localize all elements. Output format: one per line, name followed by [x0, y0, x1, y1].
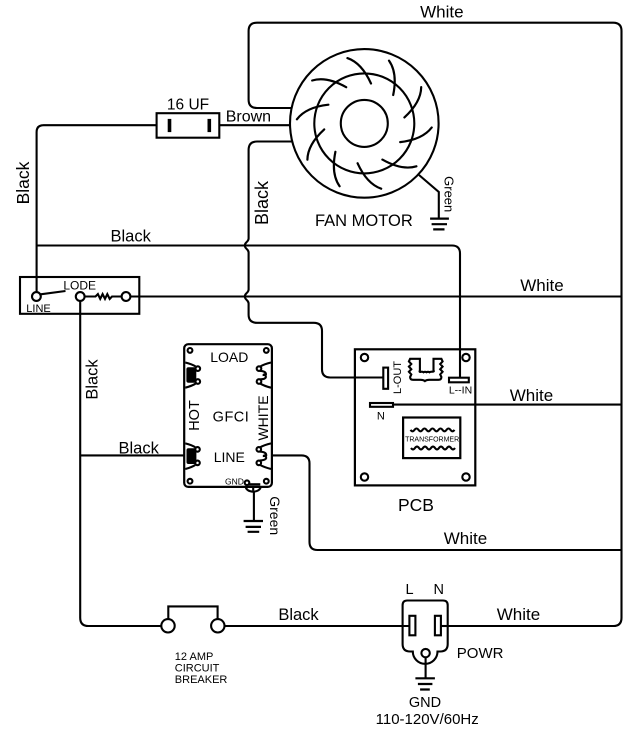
svg-text:N: N — [434, 582, 444, 598]
svg-text:N: N — [377, 411, 385, 423]
svg-text:Black: Black — [119, 439, 160, 457]
svg-text:White: White — [497, 605, 540, 624]
svg-text:LOAD: LOAD — [210, 349, 248, 365]
svg-text:White: White — [420, 3, 463, 22]
svg-text:Green: Green — [442, 176, 457, 212]
svg-text:12 AMP: 12 AMP — [175, 651, 214, 663]
svg-text:GND: GND — [409, 695, 441, 711]
svg-text:GND: GND — [225, 477, 244, 487]
svg-text:FAN MOTOR: FAN MOTOR — [315, 212, 413, 230]
svg-text:CIRCUIT: CIRCUIT — [175, 662, 220, 674]
svg-text:WHITE: WHITE — [255, 395, 271, 440]
svg-text:White: White — [444, 529, 487, 548]
svg-text:L--IN: L--IN — [449, 385, 472, 397]
svg-text:GFCI: GFCI — [213, 409, 250, 425]
svg-text:HOT: HOT — [187, 400, 203, 431]
svg-text:16 UF: 16 UF — [167, 96, 209, 113]
svg-text:L: L — [405, 582, 413, 598]
svg-text:Black: Black — [111, 228, 152, 246]
svg-text:White: White — [520, 276, 563, 295]
svg-text:Black: Black — [13, 161, 33, 204]
svg-text:White: White — [510, 386, 553, 405]
svg-text:PCB: PCB — [398, 495, 434, 515]
svg-text:Black: Black — [84, 359, 102, 400]
svg-text:BREAKER: BREAKER — [175, 674, 228, 686]
svg-text:POWR: POWR — [457, 645, 504, 662]
svg-text:Brown: Brown — [226, 109, 271, 126]
svg-text:LODE: LODE — [63, 278, 96, 292]
svg-text:Black: Black — [278, 606, 319, 624]
svg-text:L-OUT: L-OUT — [392, 361, 404, 394]
svg-text:Green: Green — [267, 496, 283, 535]
svg-text:Black: Black — [252, 180, 272, 225]
svg-text:TRANSFORMER: TRANSFORMER — [405, 437, 459, 444]
svg-text:LINE: LINE — [214, 449, 245, 465]
svg-text:110-120V/60Hz: 110-120V/60Hz — [376, 711, 479, 728]
svg-text:LINE: LINE — [26, 303, 50, 315]
